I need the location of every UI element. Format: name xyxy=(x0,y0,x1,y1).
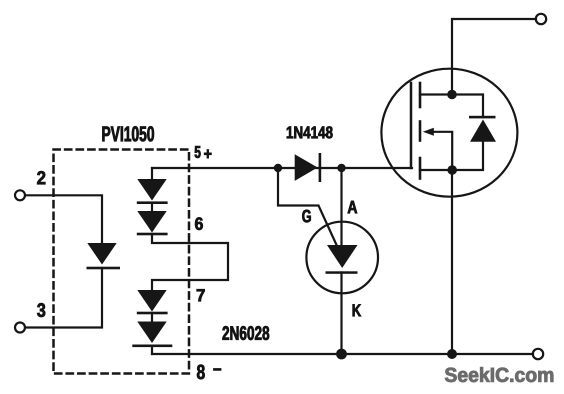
MOSFET channel segment body xyxy=(419,122,422,141)
wire pin 5+ to MOSFET gate xyxy=(152,167,412,169)
wire photodiode stack lower segment to pin 8 xyxy=(151,346,153,354)
label pin 7 xyxy=(197,289,205,301)
photodiode D4 cathode bar xyxy=(137,312,168,315)
wire pin 6 to pin 7 jog xyxy=(152,234,228,290)
output terminal top right xyxy=(536,14,546,24)
wire MOSFET body diode cathode to drain node xyxy=(452,95,483,118)
junction dot diode cathode node xyxy=(337,164,345,172)
junction dot MOSFET drain node xyxy=(447,90,457,100)
PUT 2N6028 anode triangle xyxy=(327,245,358,268)
LED D1 inside PVI1050 triangle xyxy=(87,243,116,265)
photodiode D3 triangle xyxy=(137,211,166,233)
LED D1 cathode bar xyxy=(87,267,121,270)
label pin 8 minus sign xyxy=(213,368,221,370)
wire photodiode stack upper segment xyxy=(151,168,153,179)
junction dot PUT cathode on bottom rail xyxy=(336,349,347,360)
MOSFET body arrow head xyxy=(423,128,434,136)
MOSFET Q1 body circle xyxy=(381,69,517,197)
wire between photodiodes D2 and D3 xyxy=(151,203,153,211)
photodiode D4 triangle xyxy=(137,290,166,312)
label PUT anode A xyxy=(348,201,357,213)
photodiode D5 triangle xyxy=(137,322,166,344)
wire pin 2 to LED anode xyxy=(25,195,102,243)
photodiode D3 cathode bar xyxy=(137,233,168,236)
input terminal pin 2 xyxy=(15,190,25,200)
wire PUT cathode xyxy=(340,273,342,355)
wire PUT anode xyxy=(340,168,342,246)
wire PUT gate branch xyxy=(278,168,337,246)
diode 1N4148 triangle xyxy=(295,154,318,181)
wire MOSFET drain to top terminal xyxy=(452,19,536,95)
junction dot diode anode node xyxy=(274,164,282,172)
label PUT gate G xyxy=(302,210,310,223)
bottom wire pin 8 to output terminal xyxy=(152,353,533,355)
label pin 5 xyxy=(195,146,201,158)
PUT 2N6028 circle xyxy=(306,222,378,294)
wire MOSFET body diode anode to source node xyxy=(452,142,483,170)
label PUT cathode K xyxy=(353,304,361,316)
MOSFET channel segment source xyxy=(419,158,422,179)
output terminal bottom right xyxy=(533,349,543,359)
label pin 5 plus sign xyxy=(204,150,211,159)
label pin 2 xyxy=(37,171,45,184)
MOSFET body contact with arrow xyxy=(433,132,452,170)
watermark SeekIC.com xyxy=(445,367,553,382)
input terminal pin 3 xyxy=(15,323,25,333)
MOSFET channel segment drain xyxy=(419,83,422,107)
junction dot MOSFET source node xyxy=(447,165,457,175)
wire pin 3 to LED cathode xyxy=(25,268,102,328)
label PVI1050 xyxy=(102,126,154,141)
wire between photodiodes D4 and D5 xyxy=(151,313,153,322)
MOSFET source contact xyxy=(420,169,452,171)
MOSFET body diode cathode bar xyxy=(469,116,496,119)
photodiode D2 triangle xyxy=(137,179,166,201)
label pin 6 xyxy=(195,217,203,230)
wire MOSFET source to bottom rail xyxy=(451,170,453,354)
optocoupler PVI1050 dashed box xyxy=(54,150,190,374)
MOSFET gate bar xyxy=(410,83,413,168)
junction dot MOSFET source on bottom rail xyxy=(447,349,457,359)
label 2N6028 xyxy=(222,326,269,340)
MOSFET body diode triangle xyxy=(470,120,496,142)
photodiode D5 cathode bar (pin 8 tick) xyxy=(132,345,172,348)
MOSFET drain contact xyxy=(420,93,452,95)
label 1N4148 xyxy=(287,126,333,138)
label pin 8 xyxy=(197,365,205,380)
diode 1N4148 cathode bar xyxy=(319,153,322,182)
label pin 3 xyxy=(37,303,45,317)
PUT 2N6028 cathode bar xyxy=(326,271,358,274)
photodiode D2 cathode bar xyxy=(137,201,168,204)
